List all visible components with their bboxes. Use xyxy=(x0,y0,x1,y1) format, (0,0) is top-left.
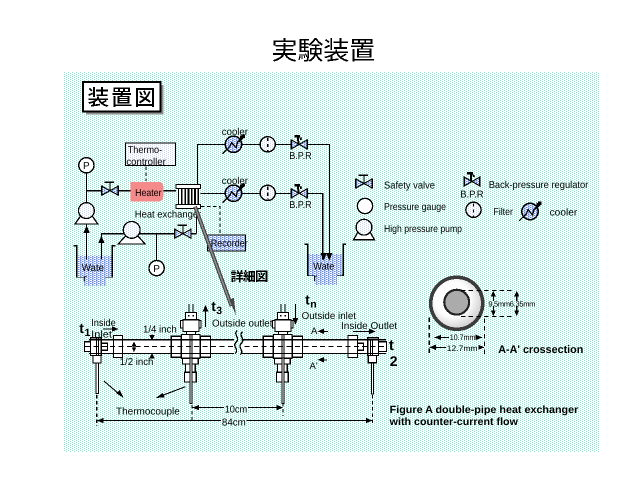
svg-text:9.5mm6.35mm: 9.5mm6.35mm xyxy=(488,299,535,308)
dashed verticals outer diameter xyxy=(428,318,430,355)
cooler C2 xyxy=(225,185,241,201)
left probe tee block xyxy=(90,338,101,356)
wire from tank up and right to pump PU2 xyxy=(101,234,196,259)
tee T2 coupling right xyxy=(293,336,303,357)
arrow inside outlet xyxy=(353,330,371,332)
headline box shadow xyxy=(86,85,164,115)
svg-text:1: 1 xyxy=(85,327,91,339)
left end cap xyxy=(85,342,91,352)
pipe wall lines xyxy=(89,339,386,341)
svg-text:controller: controller xyxy=(126,157,166,168)
svg-text:Figure A double-pipe heat exc: Figure A double-pipe heat exchanger xyxy=(390,404,579,416)
svg-text:12.7mm: 12.7mm xyxy=(447,344,478,353)
water tank left xyxy=(74,246,116,277)
tee T1 probe through body xyxy=(189,335,191,358)
svg-text:Back-pressure regulator: Back-pressure regulator xyxy=(489,180,589,191)
arrow 1/4 inch xyxy=(151,335,153,338)
outer pipe body xyxy=(89,340,386,354)
wire drop to gauge P2 xyxy=(156,234,158,261)
svg-text:1/4 inch: 1/4 inch xyxy=(143,325,177,336)
arrow up into pump PU1 xyxy=(83,226,89,234)
dimension 10cm xyxy=(193,407,225,409)
svg-text:10cm: 10cm xyxy=(225,405,248,416)
tee T2 probe through body xyxy=(281,335,283,358)
thermocouple probe right xyxy=(369,339,371,355)
dashed line to recorder xyxy=(201,207,220,235)
tee T1 riser pipes xyxy=(188,304,190,313)
label 詳細図 xyxy=(231,270,267,282)
svg-text:Heat exchanger: Heat exchanger xyxy=(135,209,202,220)
svg-text:P: P xyxy=(153,264,160,275)
svg-text:1/2 inch: 1/2 inch xyxy=(120,357,154,368)
svg-text:High pressure pump: High pressure pump xyxy=(384,224,462,235)
svg-text:2: 2 xyxy=(390,353,398,369)
svg-text:10.7mm: 10.7mm xyxy=(450,333,476,342)
valve V3 xyxy=(174,229,176,239)
heater H1 xyxy=(130,182,163,202)
legend high pressure pump symbol xyxy=(354,232,375,240)
arrow 1/2 inch xyxy=(151,356,153,359)
cooler C1 xyxy=(225,136,241,152)
heat exchanger HX xyxy=(176,185,200,209)
recorder box xyxy=(208,235,246,251)
wire HX right to row2 xyxy=(200,193,322,250)
inner diameter double arrow xyxy=(133,344,135,350)
svg-text:cooler: cooler xyxy=(550,207,578,218)
tee T1 upper body with wings xyxy=(181,320,184,328)
pointer arrow to tee1 probe xyxy=(160,387,186,397)
wire horizontal gauge line to Heater xyxy=(86,190,130,192)
filter F2 xyxy=(260,185,275,200)
tee T1 lower taper xyxy=(182,358,198,364)
pump PU1 xyxy=(75,216,98,224)
svg-text:with counter-current flow: with counter-current flow xyxy=(389,416,519,428)
feed lines into right tank xyxy=(328,250,330,260)
svg-text:B.P.R: B.P.R xyxy=(289,200,312,211)
water tank right xyxy=(304,244,346,275)
left connector xyxy=(101,343,107,350)
vertical dim arrows xyxy=(492,292,494,301)
tee T1 neck xyxy=(187,332,196,335)
svg-text:A': A' xyxy=(310,361,318,372)
svg-text:Outside outlet: Outside outlet xyxy=(212,319,273,330)
svg-text:Thermocouple: Thermocouple xyxy=(116,407,180,418)
svg-text:B.P.R: B.P.R xyxy=(460,190,483,201)
legend pressure gauge symbol xyxy=(357,198,372,213)
tee T2 riser pipes xyxy=(280,304,282,313)
wire HX top to row1 xyxy=(197,144,329,250)
svg-text:Wate: Wate xyxy=(313,261,334,272)
svg-text:P: P xyxy=(83,161,90,172)
svg-text:3: 3 xyxy=(216,305,222,317)
diagram background panel xyxy=(63,72,600,452)
legend cooler symbol xyxy=(522,203,538,219)
svg-text:Filter: Filter xyxy=(493,207,513,218)
tee T2 thermocouple probe xyxy=(282,358,284,403)
right probe tee block xyxy=(368,338,379,356)
pipe break symbol xyxy=(234,338,242,355)
dashed control line to heater xyxy=(145,167,147,182)
svg-text:Pressure gauge: Pressure gauge xyxy=(384,202,446,213)
pump PU2 xyxy=(118,236,145,244)
arrow outside outlet up xyxy=(205,309,207,327)
svg-text:B.P.R: B.P.R xyxy=(289,151,312,162)
right end cap xyxy=(379,342,387,352)
tee T1 thermocouple probe xyxy=(190,358,192,403)
dashed lines inner diameters xyxy=(461,289,513,291)
svg-text:Inlet: Inlet xyxy=(91,330,112,341)
tee T2 upper body with wings xyxy=(273,320,276,328)
dim 10.7mm xyxy=(435,336,482,338)
svg-text:Safety valve: Safety valve xyxy=(384,181,435,192)
arrow up on tank outlet xyxy=(98,236,104,244)
cross-section outer pipe xyxy=(431,277,483,329)
tee T2 lower taper xyxy=(274,358,290,364)
tee T1 body xyxy=(182,335,201,359)
pressure gauge P1 xyxy=(79,158,94,173)
arrow into right tank row1 xyxy=(326,253,332,261)
arrow inside inlet xyxy=(103,328,114,330)
dashed extension lines xyxy=(96,395,98,426)
legend safety valve symbol xyxy=(355,179,357,189)
pointer line to detail xyxy=(195,207,232,307)
svg-text:n: n xyxy=(310,298,316,310)
thermocouple probe left xyxy=(95,339,97,356)
svg-text:Thermo-: Thermo- xyxy=(128,145,163,156)
dim 12.7mm xyxy=(429,346,484,348)
wire vertical from gauge P1 down to tank xyxy=(85,172,87,259)
tee T1 coupling right xyxy=(201,336,211,357)
title 実験装置 xyxy=(273,38,374,62)
svg-text:Wate: Wate xyxy=(82,263,105,274)
right connector xyxy=(357,343,363,350)
pipe centerline dashed xyxy=(85,346,387,348)
arrow outside inlet down xyxy=(294,304,296,321)
back-pressure regulator BPR1 xyxy=(290,139,292,149)
tee T1 coupling left xyxy=(171,336,181,357)
legend filter symbol xyxy=(466,202,481,217)
right coupling nut xyxy=(348,336,357,358)
pressure gauge P2 xyxy=(149,261,164,276)
svg-text:Recorder: Recorder xyxy=(211,239,249,250)
tee T2 top nut xyxy=(278,312,289,319)
wire heater to heat exchanger xyxy=(163,190,176,192)
tee T2 neck xyxy=(279,332,288,335)
tee T2 coupling left xyxy=(263,336,273,357)
filter F1 xyxy=(260,137,275,152)
tee T2 body xyxy=(274,335,293,359)
svg-text:A-A' crossection: A-A' crossection xyxy=(498,344,583,356)
svg-text:A: A xyxy=(311,326,318,337)
pointer arrow to left probe xyxy=(104,381,121,395)
svg-text:84cm: 84cm xyxy=(222,417,246,428)
left coupling nut xyxy=(114,336,123,358)
arrow into right tank row2 xyxy=(321,253,327,261)
pipe ends inside left tank xyxy=(85,250,87,260)
cross-section inner pipe xyxy=(444,290,469,315)
dimension 84cm xyxy=(97,420,221,422)
svg-text:t: t xyxy=(389,337,394,354)
legend BPR symbol xyxy=(463,177,465,187)
headline box 装置図 xyxy=(83,82,161,112)
valve V1 xyxy=(101,186,103,196)
wire up to heat exchanger bottom xyxy=(196,209,198,234)
svg-text:Heater: Heater xyxy=(135,188,162,199)
thermo-controller box xyxy=(126,143,176,166)
tee T1 top nut xyxy=(186,312,197,319)
back-pressure regulator BPR2 xyxy=(290,188,292,198)
